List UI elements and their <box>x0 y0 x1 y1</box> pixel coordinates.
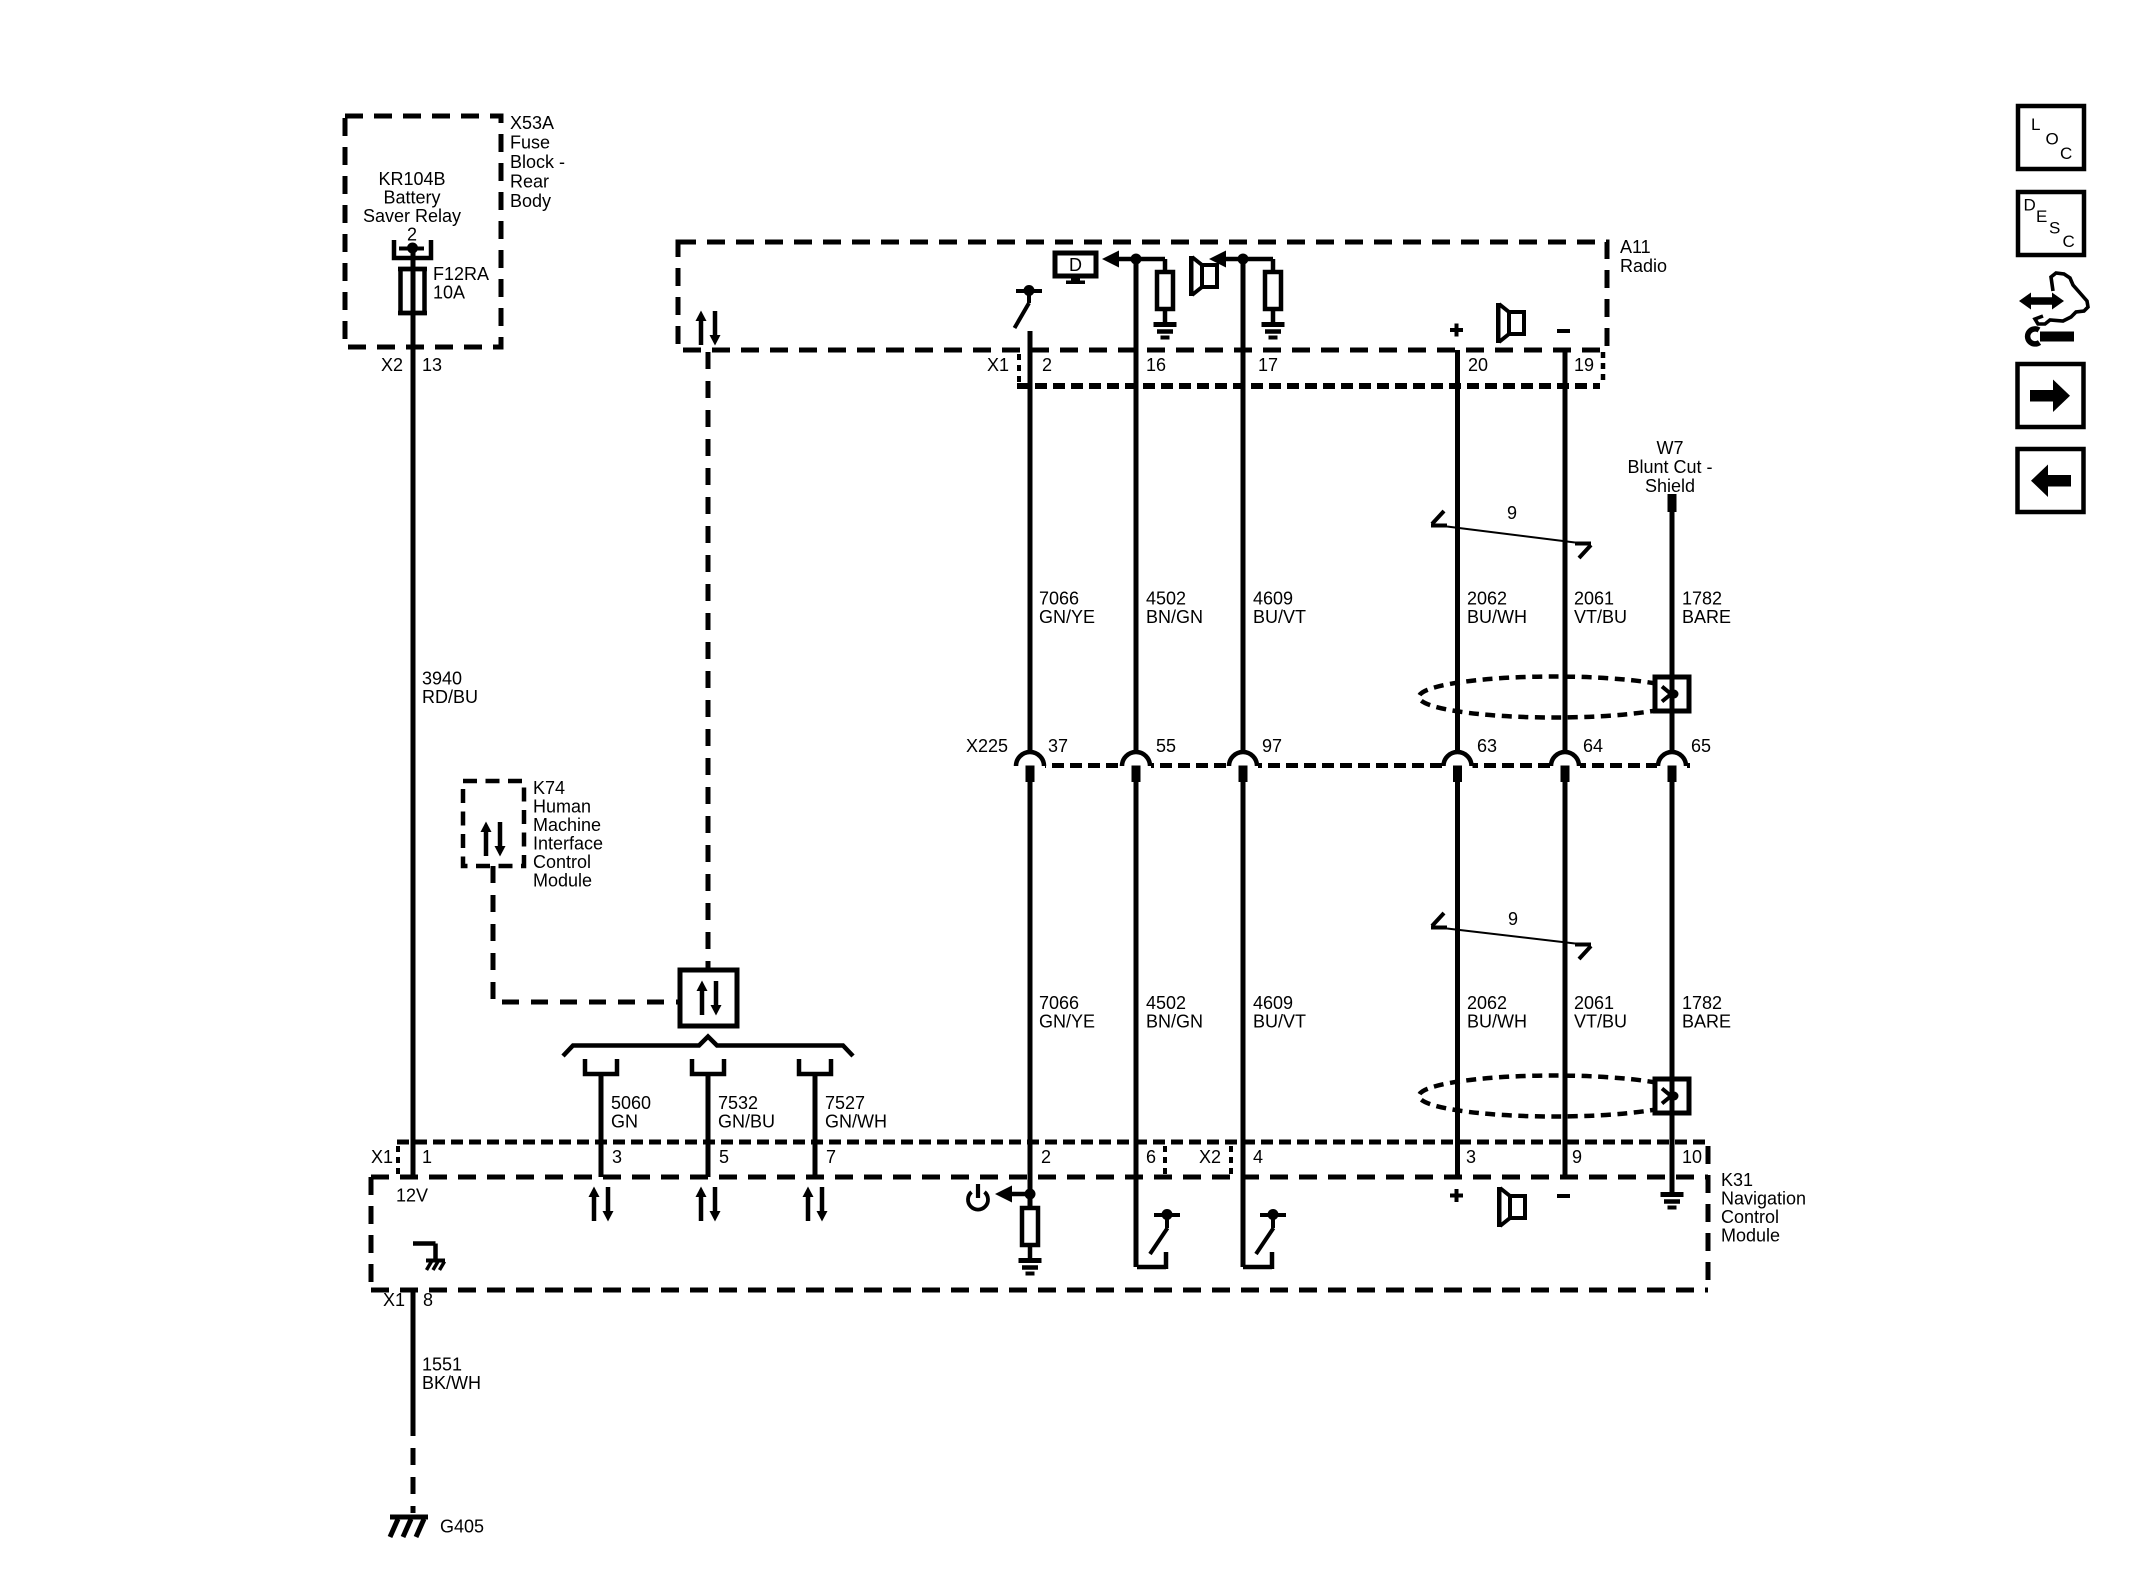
svg-text:BARE: BARE <box>1682 607 1731 627</box>
shield termination box upper <box>1655 677 1689 711</box>
label wire 4609 BU/VT lower <box>1253 993 1306 1032</box>
svg-text:Interface: Interface <box>533 834 603 854</box>
svg-text:BN/GN: BN/GN <box>1146 1012 1203 1032</box>
speaker symbol (pin 17 tweeter) <box>1189 256 1217 296</box>
svg-text:W7: W7 <box>1657 438 1684 458</box>
radio A11 dashed box <box>678 242 1607 350</box>
svg-text:A11: A11 <box>1620 237 1651 257</box>
label wire 1782 BARE lower <box>1682 993 1731 1032</box>
label wire 5060 GN <box>611 1093 651 1132</box>
wire 1551 BK/WH (K31 X1-8 to G405) <box>411 1290 416 1513</box>
svg-text:2: 2 <box>1041 1147 1051 1167</box>
label wire 3940 RD/BU <box>422 669 478 708</box>
label wire 4609 BU/VT <box>1253 589 1306 628</box>
label X53A Fuse Block - Rear Body <box>510 113 565 211</box>
svg-text:20: 20 <box>1468 355 1488 375</box>
icon vehicle diagnostic (car with double arrow and wrench) <box>2019 273 2088 344</box>
label K74 Human Machine Interface Control Module <box>533 778 603 891</box>
wire 7066 GN/YE upper (radio X1-2 to X225-37) <box>1028 331 1033 752</box>
svg-text:BU/WH: BU/WH <box>1467 607 1527 627</box>
wire (dashed data link K74 to splice box) <box>493 866 680 1002</box>
svg-text:4502: 4502 <box>1146 589 1186 609</box>
svg-text:Fuse: Fuse <box>510 133 550 153</box>
switch symbol K31 pin 6 <box>1137 1209 1180 1269</box>
label wire 7066 GN/YE <box>1039 589 1095 628</box>
svg-text:BU/VT: BU/VT <box>1253 607 1306 627</box>
display D box <box>1055 253 1096 284</box>
svg-text:Block -: Block - <box>510 152 565 172</box>
svg-text:2061: 2061 <box>1574 589 1614 609</box>
label wire 7527 GN/WH <box>825 1093 887 1132</box>
svg-text:6: 6 <box>1146 1147 1156 1167</box>
wire (dashed data link A11 radio to splice box) <box>706 352 711 970</box>
K31 speaker minus sign <box>1557 1194 1570 1198</box>
svg-text:7066: 7066 <box>1039 589 1079 609</box>
label K31 Navigation Control Module <box>1721 1170 1806 1246</box>
ground (pin16 internal) <box>1154 325 1177 338</box>
svg-text:E: E <box>2036 207 2047 226</box>
K31 serial data arrows pin 7 <box>803 1187 828 1222</box>
icon DESC box <box>2018 192 2084 255</box>
label wire 2062 BU/WH <box>1467 589 1527 628</box>
icon next arrow box <box>2018 364 2084 427</box>
ground (K31 pin 10 internal) <box>1661 1195 1684 1208</box>
label G405 <box>440 1517 484 1537</box>
label wire 2062 BU/WH lower <box>1467 993 1527 1032</box>
icon LOC box <box>2018 106 2084 169</box>
K31 connector dotted line <box>397 1140 1708 1145</box>
svg-text:17: 17 <box>1258 355 1278 375</box>
label 9 (upper twisted pair) <box>1507 503 1517 523</box>
wire 1782 BARE lower (X225-65 to K31 X2-10) <box>1670 766 1675 1194</box>
svg-text:D: D <box>1069 255 1082 275</box>
labels radio connector X1 pins <box>987 355 1594 375</box>
label wire 2061 VT/BU <box>1574 589 1627 628</box>
wire 4502 BN/GN lower (X225-55 to K31 X1-6) <box>1134 766 1139 1267</box>
module K74 dashed box <box>463 781 524 866</box>
junction node pin17 <box>1238 254 1249 265</box>
svg-text:2: 2 <box>407 225 417 245</box>
icon previous arrow box <box>2018 449 2084 512</box>
resistor to ground (pin 17 branch) <box>1243 259 1281 322</box>
svg-text:4502: 4502 <box>1146 993 1186 1013</box>
svg-text:Body: Body <box>510 191 551 211</box>
arrow into display from pin 16 <box>1102 251 1136 268</box>
radio speaker plus sign <box>1450 324 1463 337</box>
label wire 7066 GN/YE lower <box>1039 993 1095 1032</box>
radio speaker minus sign <box>1557 329 1570 333</box>
arrow to power symbol <box>995 1186 1030 1203</box>
svg-text:X1: X1 <box>371 1147 393 1167</box>
svg-text:3940: 3940 <box>422 669 462 689</box>
svg-text:4609: 4609 <box>1253 993 1293 1013</box>
svg-text:G405: G405 <box>440 1517 484 1537</box>
K31 internal ground path for pin 8 <box>413 1244 436 1260</box>
svg-text:Module: Module <box>533 871 592 891</box>
label wire 4502 BN/GN lower <box>1146 993 1203 1032</box>
svg-text:X1: X1 <box>987 355 1009 375</box>
svg-text:Module: Module <box>1721 1226 1780 1246</box>
serial data splice box with arrows <box>680 970 737 1026</box>
svg-text:BN/GN: BN/GN <box>1146 607 1203 627</box>
wire 4502 BN/GN upper (radio X1-16 to X225-55) <box>1134 259 1139 752</box>
radio internal speaker symbol <box>1496 303 1524 343</box>
svg-text:Radio: Radio <box>1620 256 1667 276</box>
K31 serial data arrows pin 3 <box>589 1187 614 1222</box>
svg-text:97: 97 <box>1262 736 1282 756</box>
X225 pass-through terminal pin 65 <box>1657 752 1687 782</box>
svg-text:GN/YE: GN/YE <box>1039 607 1095 627</box>
shield ellipse upper <box>1419 677 1689 718</box>
svg-text:1: 1 <box>422 1147 432 1167</box>
svg-text:X53A: X53A <box>510 113 554 133</box>
svg-text:16: 16 <box>1146 355 1166 375</box>
svg-text:F12RA: F12RA <box>433 264 489 284</box>
wire 2061 VT/BU lower (X225-64 to K31 X2-9) <box>1563 766 1568 1177</box>
svg-text:Control: Control <box>1721 1207 1779 1227</box>
shield termination box lower <box>1655 1079 1689 1113</box>
svg-text:Human: Human <box>533 797 591 817</box>
svg-text:D: D <box>2024 196 2036 215</box>
label 9 (lower twisted pair) <box>1508 909 1518 929</box>
svg-text:X2: X2 <box>1199 1147 1221 1167</box>
svg-text:KR104B: KR104B <box>378 169 445 189</box>
X225 pass-through terminal pin 63 <box>1443 752 1473 782</box>
label X1 8 below K31 <box>383 1290 433 1310</box>
wire 2062 BU/WH lower (X225-63 to K31 X2-3) <box>1455 766 1460 1177</box>
svg-text:63: 63 <box>1477 736 1497 756</box>
switch symbol K31 pin 4 <box>1243 1209 1286 1269</box>
connector separator X2 pair <box>1165 1146 1231 1174</box>
svg-text:Saver Relay: Saver Relay <box>363 206 461 226</box>
junction node pin16 <box>1131 254 1142 265</box>
wire 4609 BU/VT upper (radio X1-17 to X225-97) <box>1241 259 1246 752</box>
label W7 Blunt Cut - Shield <box>1627 438 1712 496</box>
K74 serial data arrows <box>481 822 506 857</box>
radio ignition switch symbol (pin 2) <box>1015 285 1043 328</box>
resistor to ground (K31 pin 2) <box>1022 1208 1038 1258</box>
resistor to ground (pin 16 branch) <box>1136 259 1173 322</box>
svg-text:5: 5 <box>719 1147 729 1167</box>
svg-text:4609: 4609 <box>1253 589 1293 609</box>
svg-text:Rear: Rear <box>510 172 549 192</box>
svg-text:12V: 12V <box>396 1186 428 1206</box>
arrow into speaker from pin 17 <box>1209 251 1243 268</box>
svg-text:O: O <box>2046 130 2059 149</box>
svg-text:65: 65 <box>1691 736 1711 756</box>
label wire 1782 BARE <box>1682 589 1731 628</box>
label F12RA 10A <box>433 264 489 303</box>
chassis ground rake (K31 internal) <box>426 1261 445 1271</box>
svg-text:7532: 7532 <box>718 1093 758 1113</box>
twisted pair symbol upper with count 9 <box>1431 511 1591 558</box>
svg-text:BU/WH: BU/WH <box>1467 1012 1527 1032</box>
svg-text:2061: 2061 <box>1574 993 1614 1013</box>
X225 pass-through terminal pin 55 <box>1121 752 1151 782</box>
fuse block X53A dashed box <box>345 116 501 347</box>
svg-text:C: C <box>2060 144 2072 163</box>
labels connector X225 pins <box>966 736 1711 756</box>
svg-text:4: 4 <box>1253 1147 1263 1167</box>
fuse F12RA 10A <box>398 269 427 313</box>
ground (K31 pin2 internal) <box>1019 1261 1042 1274</box>
connector X225 dotted line <box>1016 763 1690 768</box>
wire 7066 GN/YE lower (X225-37 to K31 X1-2) <box>1028 766 1033 1208</box>
svg-text:7066: 7066 <box>1039 993 1079 1013</box>
connector separator X1 left <box>396 1146 400 1174</box>
X225 pass-through terminal pin 37 <box>1015 752 1045 782</box>
svg-text:10: 10 <box>1682 1147 1702 1167</box>
X225 pass-through terminal pin 64 <box>1550 752 1580 782</box>
svg-text:BU/VT: BU/VT <box>1253 1012 1306 1032</box>
svg-text:1782: 1782 <box>1682 589 1722 609</box>
svg-text:GN/YE: GN/YE <box>1039 1012 1095 1032</box>
svg-text:Machine: Machine <box>533 815 601 835</box>
svg-text:55: 55 <box>1156 736 1176 756</box>
svg-text:RD/BU: RD/BU <box>422 687 478 707</box>
svg-text:10A: 10A <box>433 283 465 303</box>
label KR104B Battery Saver Relay pin 2 <box>363 169 461 245</box>
radio X1 connector dotted strip <box>1017 352 1603 386</box>
wire 4609 BU/VT lower (X225-97 to K31 X2-4) <box>1241 766 1246 1267</box>
svg-text:GN/BU: GN/BU <box>718 1112 775 1132</box>
K31 internal speaker symbol <box>1497 1187 1525 1227</box>
terminal cup branch 2 <box>692 1059 724 1074</box>
svg-text:37: 37 <box>1048 736 1068 756</box>
module K31 dashed box <box>371 1146 1708 1290</box>
K31 serial data arrows pin 5 <box>696 1187 721 1222</box>
label wire 4502 BN/GN <box>1146 589 1203 628</box>
ground (pin17 internal) <box>1262 325 1285 338</box>
terminal cup branch 3 <box>799 1059 831 1074</box>
svg-text:GN: GN <box>611 1112 638 1132</box>
svg-text:9: 9 <box>1572 1147 1582 1167</box>
twisted pair symbol lower with count 9 <box>1431 913 1591 959</box>
svg-text:1551: 1551 <box>422 1355 462 1375</box>
label A11 Radio <box>1620 237 1667 276</box>
label wire 7532 GN/BU <box>718 1093 775 1132</box>
svg-text:2: 2 <box>1042 355 1052 375</box>
svg-text:BK/WH: BK/WH <box>422 1373 481 1393</box>
svg-text:K31: K31 <box>1721 1170 1753 1190</box>
ground G405 <box>390 1517 428 1537</box>
svg-text:8: 8 <box>423 1290 433 1310</box>
svg-text:K74: K74 <box>533 778 565 798</box>
svg-text:7: 7 <box>826 1147 836 1167</box>
label wire 2061 VT/BU lower <box>1574 993 1627 1032</box>
relay KR104B output terminal cup <box>394 240 431 258</box>
brace splitting data bus into three <box>563 1037 853 1057</box>
svg-text:BARE: BARE <box>1682 1012 1731 1032</box>
svg-text:X225: X225 <box>966 736 1008 756</box>
svg-text:5060: 5060 <box>611 1093 651 1113</box>
svg-text:13: 13 <box>422 355 442 375</box>
svg-text:2062: 2062 <box>1467 589 1507 609</box>
svg-text:3: 3 <box>612 1147 622 1167</box>
svg-text:S: S <box>2049 219 2060 238</box>
svg-text:L: L <box>2031 115 2040 134</box>
X225 pass-through terminal pin 97 <box>1228 752 1258 782</box>
label X2 13 (fuse block connector) <box>381 355 442 375</box>
labels K31 connector pins row <box>371 1147 1702 1167</box>
svg-text:7527: 7527 <box>825 1093 865 1113</box>
label 12V <box>396 1186 428 1206</box>
svg-text:VT/BU: VT/BU <box>1574 607 1627 627</box>
svg-text:9: 9 <box>1508 909 1518 929</box>
svg-text:19: 19 <box>1574 355 1594 375</box>
radio serial data arrows <box>696 311 721 346</box>
svg-text:Blunt Cut -: Blunt Cut - <box>1627 457 1712 477</box>
svg-text:1782: 1782 <box>1682 993 1722 1013</box>
W7 blunt cut terminal <box>1668 494 1677 512</box>
svg-text:Battery: Battery <box>383 188 440 208</box>
power symbol <box>968 1184 988 1210</box>
wire 5060 GN (to K31 X1-3) <box>599 1076 604 1177</box>
svg-text:Control: Control <box>533 852 591 872</box>
svg-text:VT/BU: VT/BU <box>1574 1012 1627 1032</box>
svg-text:Navigation: Navigation <box>1721 1189 1806 1209</box>
junction node K31 pin 2 <box>1025 1189 1036 1200</box>
svg-text:X1: X1 <box>383 1290 405 1310</box>
svg-text:9: 9 <box>1507 503 1517 523</box>
wire 3940 RD/BU (fuse X2-13 to K31 X1-1) <box>411 248 416 1177</box>
svg-text:3: 3 <box>1466 1147 1476 1167</box>
svg-text:64: 64 <box>1583 736 1603 756</box>
wire 1782 BARE upper (W7 to X225-65) <box>1670 512 1675 752</box>
wire 2062 BU/WH upper (radio X1-20 to X225-63) <box>1455 350 1460 752</box>
svg-text:C: C <box>2063 232 2075 251</box>
K31 speaker plus sign <box>1450 1189 1463 1202</box>
wire 7532 GN/BU (to K31 X1-5) <box>706 1076 711 1177</box>
terminal cup branch 1 <box>585 1059 617 1074</box>
svg-text:2062: 2062 <box>1467 993 1507 1013</box>
label wire 1551 BK/WH <box>422 1355 481 1394</box>
shield ellipse lower <box>1419 1076 1689 1117</box>
wire 2061 VT/BU upper (radio X1-19 to X225-64) <box>1563 350 1568 752</box>
svg-text:GN/WH: GN/WH <box>825 1112 887 1132</box>
svg-text:Shield: Shield <box>1645 476 1695 496</box>
svg-text:X2: X2 <box>381 355 403 375</box>
wire 7527 GN/WH (to K31 X1-7) <box>813 1076 818 1177</box>
